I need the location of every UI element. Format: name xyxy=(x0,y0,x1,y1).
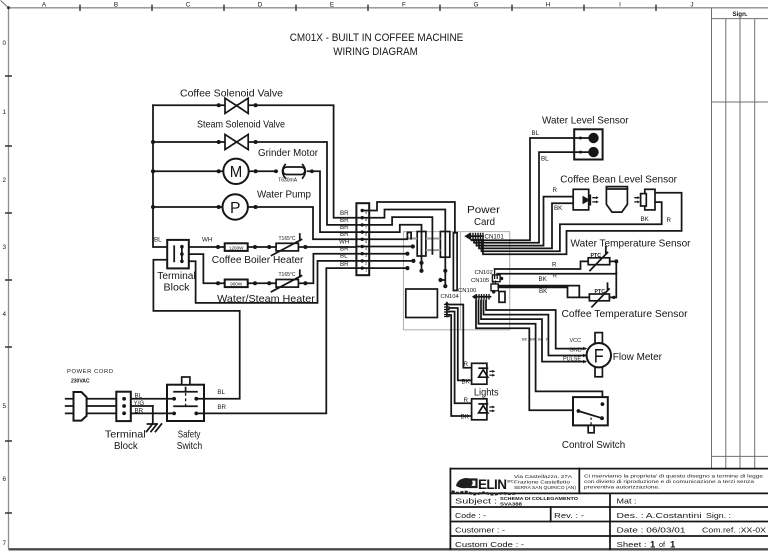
svg-text:BK: BK xyxy=(539,288,548,295)
svg-text:T630mA: T630mA xyxy=(278,178,298,184)
motor M1 grinder xyxy=(217,148,319,184)
svg-text:Code : -: Code : - xyxy=(455,511,487,520)
connector CN100 xyxy=(458,288,491,300)
frame column labels xyxy=(42,2,694,9)
component box on card xyxy=(406,289,438,318)
svg-text:BR: BR xyxy=(340,246,349,253)
wire: coffee PTC to shared return xyxy=(609,273,616,298)
terminal block TB1 xyxy=(154,237,212,294)
svg-text:BK: BK xyxy=(554,205,563,212)
svg-text:BL: BL xyxy=(541,155,549,162)
svg-text:VCC: VCC xyxy=(570,338,582,344)
svg-text:Lights: Lights xyxy=(474,387,499,398)
TITLE BLOCK xyxy=(450,469,768,550)
wire: safety switch BL output up to terminal block xyxy=(153,260,239,399)
svg-text:R: R xyxy=(552,261,557,268)
wire: CN104 to light LED2 BK xyxy=(449,315,472,416)
light LED1 xyxy=(462,361,496,385)
svg-text:R: R xyxy=(553,273,557,279)
svg-text:J: J xyxy=(690,2,693,9)
valve Y1 coffee solenoid xyxy=(180,89,283,114)
wire: coffee solenoid valve row to connector pin2 xyxy=(153,105,362,218)
frame row labels xyxy=(3,40,7,547)
switch S2 control switch xyxy=(562,397,625,451)
svg-text:H: H xyxy=(546,2,551,9)
svg-text:Sign. :: Sign. : xyxy=(706,511,731,520)
wire: heater row2 to connector pin7 xyxy=(189,254,362,284)
connector CN105 lower pins xyxy=(492,290,495,293)
svg-text:PULSE: PULSE xyxy=(563,356,581,362)
svg-text:Y/G: Y/G xyxy=(134,400,145,407)
svg-text:Coffee Temperature Sensor: Coffee Temperature Sensor xyxy=(562,309,689,320)
wire: CN104 to light LED1 BK xyxy=(449,308,472,380)
svg-text:D: D xyxy=(258,2,263,9)
ground symbol xyxy=(147,424,162,432)
svg-text:5: 5 xyxy=(3,403,7,410)
svg-text:Power: Power xyxy=(467,205,501,216)
svg-text:BR: BR xyxy=(340,224,349,231)
wire labels at connector left xyxy=(339,210,349,268)
svg-text:BR: BR xyxy=(340,231,349,238)
connector J1 pin wire stubs xyxy=(356,218,362,268)
svg-text:R: R xyxy=(667,217,672,224)
gray links xyxy=(406,239,441,251)
wire: CN100 to flow meter VCC xyxy=(486,301,585,349)
svg-text:BR: BR xyxy=(135,407,144,414)
wire: CN100 to flow meter GND xyxy=(484,301,586,356)
svg-text:BL: BL xyxy=(538,337,544,342)
frame column ticks xyxy=(80,5,656,12)
svg-text:con divieto di riproduzione e: con divieto di riproduzione e di comunic… xyxy=(584,479,755,484)
logo address xyxy=(514,474,577,490)
svg-text:4: 4 xyxy=(3,311,7,318)
svg-text:CN104: CN104 xyxy=(441,294,460,300)
bean hopper xyxy=(606,187,627,213)
svg-text:1200W: 1200W xyxy=(229,245,244,250)
card node dots xyxy=(405,244,447,288)
svg-text:CN100: CN100 xyxy=(458,288,477,294)
svg-text:POWER CORD: POWER CORD xyxy=(67,369,113,375)
wire: CN101 to bean receiver BK xyxy=(482,202,662,251)
svg-text:BL: BL xyxy=(217,389,225,396)
wire: pin4 through relay K1 xyxy=(362,225,421,271)
svg-text:Coffee Solenoid Valve: Coffee Solenoid Valve xyxy=(180,89,283,100)
svg-text:F: F xyxy=(594,347,604,368)
svg-text:Grinder Motor: Grinder Motor xyxy=(258,148,318,159)
wire: pin8 to card node xyxy=(362,260,413,262)
svg-text:BR: BR xyxy=(340,261,349,268)
svg-text:Block: Block xyxy=(114,441,138,452)
wire: pin1 to card bar xyxy=(362,202,455,233)
svg-text:BR: BR xyxy=(340,210,349,217)
svg-text:P: P xyxy=(230,200,241,217)
svg-text:7: 7 xyxy=(3,540,7,547)
svg-text:of: of xyxy=(659,540,666,549)
svg-text:R: R xyxy=(546,337,549,342)
svg-text:Safety: Safety xyxy=(178,430,201,441)
svg-text:WIRING DIAGRAM: WIRING DIAGRAM xyxy=(333,46,418,58)
svg-text:Block: Block xyxy=(164,283,191,294)
svg-text:R: R xyxy=(464,397,469,404)
valve Y2 steam solenoid xyxy=(197,120,285,150)
wire: CN101 to bean receiver R xyxy=(483,193,682,254)
card node stubs xyxy=(441,271,446,286)
wire: grinder motor row to connector pin4 xyxy=(153,171,362,232)
svg-text:Des. : A.Costantini: Des. : A.Costantini xyxy=(617,511,703,520)
svg-text:Customer : -: Customer : - xyxy=(455,525,506,534)
svg-text:A: A xyxy=(42,2,47,9)
svg-text:R: R xyxy=(553,187,558,194)
svg-text:Com.ref. :XX-0X: Com.ref. :XX-0X xyxy=(702,525,766,534)
svg-text:Water Temperature Sensor: Water Temperature Sensor xyxy=(571,239,692,250)
wire: steam solenoid valve row to connector pin3 xyxy=(153,142,362,225)
svg-text:BL: BL xyxy=(340,253,348,260)
wire: CN100 to control switch pivot xyxy=(476,301,578,411)
bean receiver xyxy=(634,189,671,224)
flow meter FM1 xyxy=(563,333,663,377)
svg-text:M: M xyxy=(230,164,243,181)
wire: earth drop xyxy=(152,406,154,424)
svg-text:Subject :: Subject : xyxy=(455,497,497,506)
svg-text:BK: BK xyxy=(530,337,536,342)
svg-text:Coffee Bean Level Sensor: Coffee Bean Level Sensor xyxy=(560,175,677,186)
svg-text:CM01X - BUILT IN COFFEE MACHIN: CM01X - BUILT IN COFFEE MACHINE xyxy=(290,32,464,44)
fuse F1 T630mA xyxy=(274,165,314,184)
svg-text:3: 3 xyxy=(3,244,7,251)
wire: water pump row to connector pin5 xyxy=(153,207,362,239)
relay K1 xyxy=(417,232,426,257)
wire: pin2 through relay K2 xyxy=(362,210,445,271)
relay K2 xyxy=(440,232,449,258)
thermal fuse F2 T165C xyxy=(272,234,302,256)
svg-text:Card: Card xyxy=(474,217,495,228)
svg-text:G: G xyxy=(474,2,479,9)
node: bus junction row2 xyxy=(151,140,155,144)
thermistor RT1 PTC water xyxy=(588,247,610,271)
svg-text:Via Castellazzo, 27A: Via Castellazzo, 27A xyxy=(514,474,572,479)
svg-text:Date : 06/03/01: Date : 06/03/01 xyxy=(617,525,686,534)
svg-text:SVA388: SVA388 xyxy=(500,501,522,506)
svg-text:6: 6 xyxy=(3,476,7,483)
wire: CN102 to water PTC R xyxy=(495,261,589,269)
plug P xyxy=(74,392,87,421)
svg-text:Mat :: Mat : xyxy=(617,497,637,506)
wire: safety switch BR output to connector pin9 xyxy=(204,268,362,413)
svg-text:Ci riserviamo la proprieta' di: Ci riserviamo la proprieta' di questo di… xyxy=(584,474,764,479)
svg-text:1: 1 xyxy=(670,539,676,550)
svg-text:WH: WH xyxy=(339,238,349,245)
wire: pin9 to card node xyxy=(362,267,407,269)
water level sensor B1 xyxy=(532,116,630,163)
svg-text:BK: BK xyxy=(641,216,650,223)
resistor R2 900W water steam heater xyxy=(217,280,315,305)
tiny wire color labels xyxy=(522,337,549,342)
svg-text:Flow Meter: Flow Meter xyxy=(613,352,663,363)
svg-text:900W: 900W xyxy=(230,282,243,287)
svg-text:Sign.: Sign. xyxy=(732,11,747,18)
svg-text:0: 0 xyxy=(3,40,7,47)
connector J1 pin dots xyxy=(361,209,364,270)
svg-text:Switch: Switch xyxy=(177,441,203,452)
svg-text:BK: BK xyxy=(539,276,548,283)
card outline U1 xyxy=(404,232,510,330)
wire: heater row1 WH to connector pin6 xyxy=(189,246,362,248)
switch S1 safety switch xyxy=(167,377,227,452)
bean emitter LED xyxy=(553,187,599,212)
node: bus junction row4 xyxy=(151,205,155,209)
svg-text:I: I xyxy=(619,2,621,9)
svg-text:Steam Solenoid Valve: Steam Solenoid Valve xyxy=(197,120,285,131)
svg-text:230VAC: 230VAC xyxy=(71,379,90,385)
wire: water PTC return BK xyxy=(497,261,616,273)
wire: pin6 to card node xyxy=(362,246,413,248)
wire: CN104 to light LED2 R xyxy=(449,312,472,404)
svg-text:BK: BK xyxy=(522,337,528,342)
svg-text:GND: GND xyxy=(570,348,582,354)
logo ELIN xyxy=(452,477,515,494)
wire: CN100 to control switch top xyxy=(479,301,603,405)
connector CN102 xyxy=(475,269,504,282)
svg-text:Terminal: Terminal xyxy=(105,430,146,441)
svg-text:BK: BK xyxy=(461,414,470,421)
svg-text:BK: BK xyxy=(462,379,471,386)
svg-text:PTC: PTC xyxy=(595,289,606,295)
node: bus junction row3 xyxy=(151,169,155,173)
svg-text:T165°C: T165°C xyxy=(278,272,295,278)
wire: coffee PTC feed pair xyxy=(498,286,589,298)
svg-text:E: E xyxy=(330,2,334,9)
svg-text:Coffee Boiler Heater: Coffee Boiler Heater xyxy=(212,255,304,266)
svg-text:SCHEMA DI COLLEGAMENTO: SCHEMA DI COLLEGAMENTO xyxy=(500,496,578,501)
wire: CN101 to bean emitter BK xyxy=(479,203,573,248)
svg-text:BL: BL xyxy=(135,393,143,400)
svg-text:preventiva autorizzazione.: preventiva autorizzazione. xyxy=(584,485,660,490)
component small box on card edge xyxy=(499,292,505,303)
wire: pin5 to gray link xyxy=(362,232,411,239)
svg-text:Frazione Castelletto: Frazione Castelletto xyxy=(514,480,571,485)
connector CN105 xyxy=(471,278,498,291)
svg-text:Sheet :: Sheet : xyxy=(617,540,647,549)
svg-text:BL: BL xyxy=(532,130,540,137)
svg-text:PTC: PTC xyxy=(591,253,602,259)
light LED2 xyxy=(461,397,496,420)
wire: terminal block bottom to connector pin8 xyxy=(189,261,362,303)
svg-text:BR: BR xyxy=(217,404,226,411)
svg-text:1: 1 xyxy=(650,539,656,550)
frame row ticks xyxy=(5,76,12,513)
svg-text:CN105: CN105 xyxy=(471,278,490,284)
resistor R1 1200W coffee boiler heater xyxy=(212,243,304,266)
wire: CN101 to water level sensor BL1 xyxy=(472,138,575,240)
svg-text:2: 2 xyxy=(3,177,7,184)
wire: CN100 to flow meter PULSE xyxy=(481,301,585,362)
svg-text:Rev. : -: Rev. : - xyxy=(554,511,585,520)
svg-text:BL: BL xyxy=(154,237,162,244)
svg-text:Control Switch: Control Switch xyxy=(562,440,625,451)
svg-text:CN102: CN102 xyxy=(475,270,493,276)
svg-text:C: C xyxy=(186,2,191,9)
svg-text:1: 1 xyxy=(3,109,7,116)
bar component xyxy=(453,233,457,291)
connector J1 9-pin xyxy=(356,203,369,275)
wire: mains three cords xyxy=(66,399,167,414)
wire: CN104 to light LED1 R xyxy=(449,305,472,368)
svg-text:ELIN: ELIN xyxy=(478,477,506,492)
svg-text:F: F xyxy=(402,2,406,9)
wire: left supply bus xyxy=(153,105,167,247)
thermal fuse F3 T165C xyxy=(272,270,302,292)
wire: pin3 between relays xyxy=(362,217,432,254)
svg-text:snc: snc xyxy=(507,479,514,484)
wire: pin7 to card node xyxy=(362,253,407,255)
revision table Sign. xyxy=(712,8,768,469)
sheet title xyxy=(290,32,464,58)
wire: CN101 to water level sensor BL2 xyxy=(474,152,574,243)
svg-text:BR: BR xyxy=(340,217,349,224)
svg-text:Water Pump: Water Pump xyxy=(257,190,311,201)
connector CN104 xyxy=(441,294,460,317)
terminal block TB2 xyxy=(105,392,146,452)
svg-text:Water Level Sensor: Water Level Sensor xyxy=(542,116,629,127)
svg-text:WH: WH xyxy=(202,237,212,244)
svg-text:SERRA SAN QUIRICO (AN): SERRA SAN QUIRICO (AN) xyxy=(514,485,577,490)
svg-text:R: R xyxy=(464,361,469,368)
title block texts xyxy=(455,497,766,551)
svg-text:B: B xyxy=(114,2,118,9)
thermistor RT2 PTC coffee xyxy=(589,283,609,307)
pump P1 water pump xyxy=(217,190,312,220)
connector CN101 xyxy=(464,233,504,241)
svg-text:Terminal: Terminal xyxy=(157,271,195,282)
svg-text:T165°C: T165°C xyxy=(278,236,295,242)
wire: CN101 to bean emitter R xyxy=(477,197,574,246)
svg-text:Custom Code : -: Custom Code : - xyxy=(455,540,525,549)
property notice xyxy=(584,474,764,490)
